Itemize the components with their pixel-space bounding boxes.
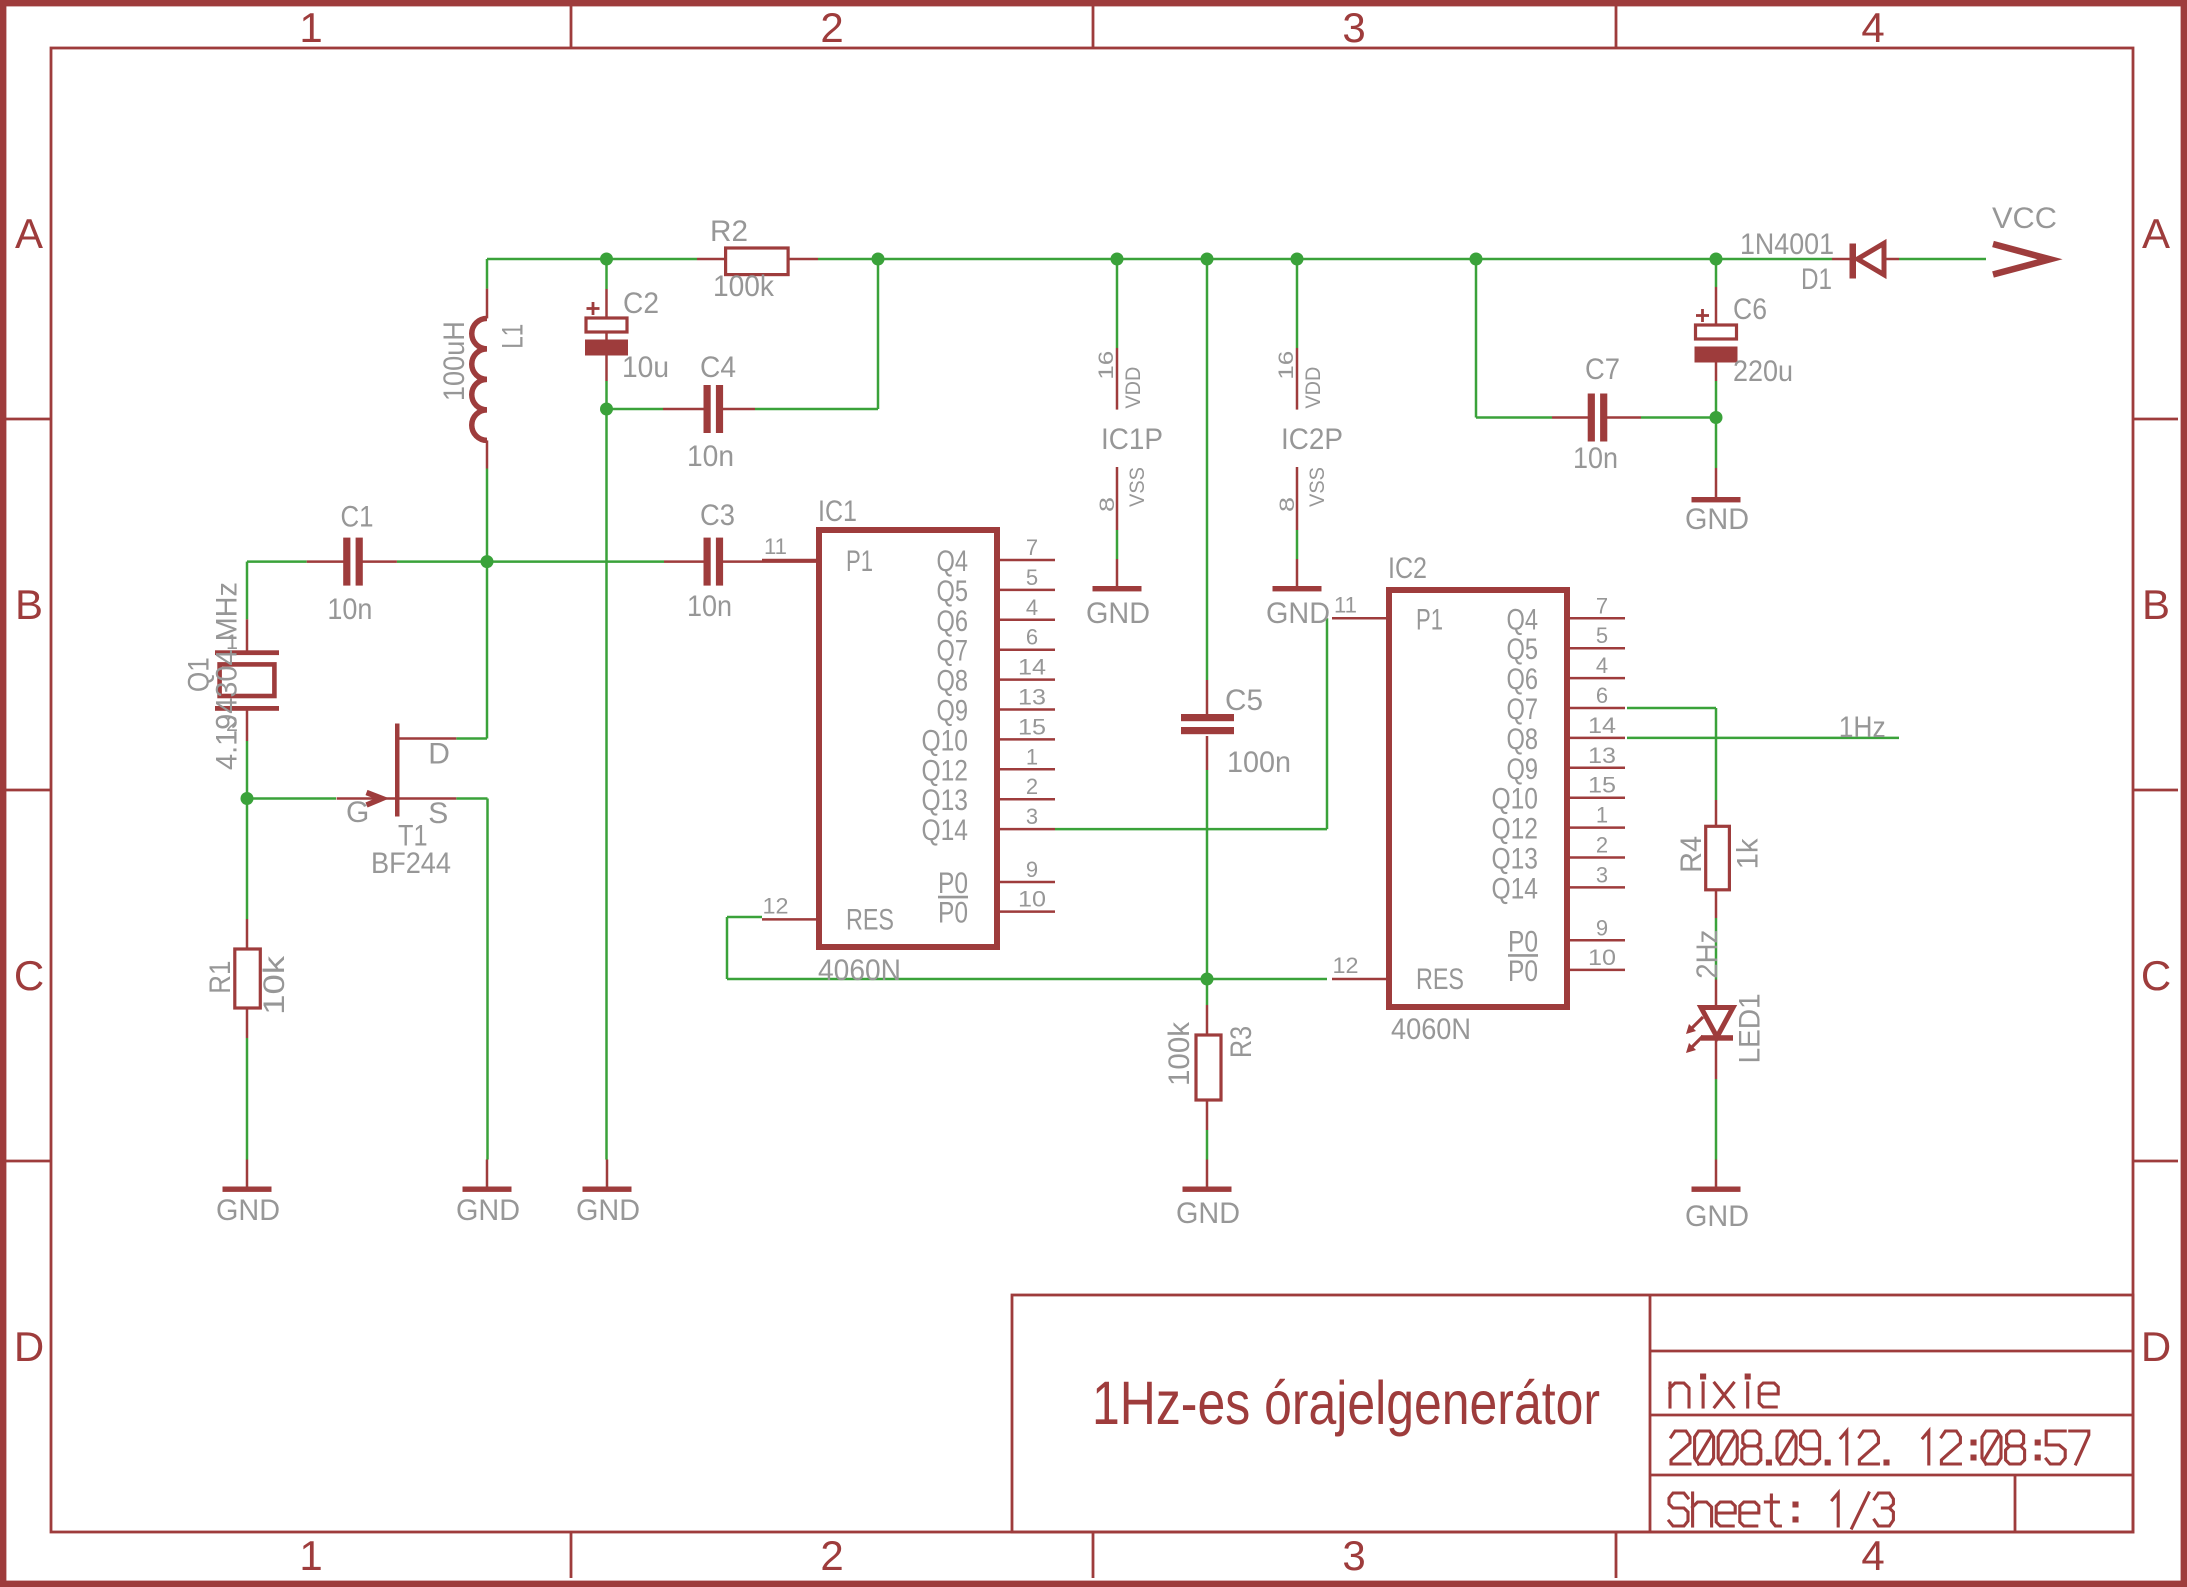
svg-text:A: A (15, 210, 43, 257)
svg-text:100k: 100k (1163, 1021, 1196, 1086)
svg-text:1: 1 (1026, 744, 1038, 769)
svg-text:G: G (346, 796, 369, 829)
svg-text:P1: P1 (846, 545, 873, 578)
svg-text:C: C (2141, 952, 2171, 999)
svg-text:VDD: VDD (1121, 367, 1145, 409)
svg-text:Q10: Q10 (922, 724, 969, 757)
svg-text:10n: 10n (1573, 442, 1618, 475)
svg-text:C7: C7 (1585, 353, 1620, 386)
svg-text:6: 6 (1596, 683, 1608, 708)
svg-text:Q5: Q5 (937, 575, 969, 608)
svg-text:P0: P0 (1508, 925, 1538, 958)
svg-text:R4: R4 (1675, 836, 1708, 873)
svg-text:13: 13 (1018, 685, 1046, 710)
svg-text:GND: GND (1176, 1197, 1240, 1230)
svg-text:8: 8 (1275, 497, 1299, 512)
svg-text:4: 4 (1861, 4, 1884, 51)
svg-text:100k: 100k (713, 270, 775, 303)
svg-text:C1: C1 (341, 500, 374, 533)
svg-text:Q4: Q4 (937, 545, 969, 578)
svg-text:12: 12 (1333, 953, 1359, 978)
svg-text:3: 3 (1342, 4, 1365, 51)
svg-text:2: 2 (820, 1532, 843, 1579)
svg-text:C6: C6 (1733, 293, 1767, 326)
svg-text:VDD: VDD (1301, 367, 1325, 409)
svg-text:16: 16 (1094, 351, 1118, 380)
svg-text:Q4: Q4 (1507, 603, 1539, 636)
svg-text:B: B (15, 581, 43, 628)
svg-text:3: 3 (1342, 1532, 1365, 1579)
svg-text:RES: RES (1416, 963, 1464, 996)
svg-text:P1: P1 (1416, 603, 1443, 636)
svg-text:15: 15 (1018, 714, 1046, 739)
svg-text:Q8: Q8 (937, 665, 969, 698)
svg-text:9: 9 (1596, 915, 1608, 940)
svg-text:11: 11 (1334, 592, 1357, 617)
svg-text:Q12: Q12 (922, 754, 969, 787)
svg-text:Q13: Q13 (1492, 843, 1539, 876)
svg-text:3: 3 (1596, 862, 1608, 887)
svg-text:Q9: Q9 (937, 695, 969, 728)
svg-text:10n: 10n (687, 440, 734, 473)
svg-text:100uH: 100uH (438, 321, 471, 401)
svg-text:Q6: Q6 (1507, 663, 1539, 696)
svg-text:6: 6 (1026, 625, 1038, 650)
svg-text:10n: 10n (327, 593, 372, 626)
svg-text:12: 12 (763, 893, 789, 918)
svg-text:VCC: VCC (1992, 202, 2057, 235)
svg-text:8: 8 (1095, 497, 1119, 512)
svg-text:C3: C3 (700, 499, 735, 532)
svg-text:4: 4 (1596, 653, 1608, 678)
svg-text:Q9: Q9 (1507, 753, 1539, 786)
svg-text:GND: GND (1086, 597, 1150, 630)
svg-text:R3: R3 (1225, 1026, 1258, 1058)
svg-text:BF244: BF244 (371, 847, 451, 880)
svg-text:R2: R2 (710, 215, 748, 248)
svg-text:GND: GND (1685, 503, 1749, 536)
svg-text:4.194304 MHz: 4.194304 MHz (211, 582, 244, 770)
svg-text:2: 2 (1026, 774, 1038, 799)
svg-text:4: 4 (1026, 595, 1038, 620)
svg-text:2: 2 (820, 4, 843, 51)
svg-text:C5: C5 (1225, 684, 1263, 717)
svg-text:GND: GND (456, 1194, 520, 1227)
svg-text:D: D (2141, 1323, 2171, 1370)
svg-text:GND: GND (216, 1194, 280, 1227)
svg-text:13: 13 (1588, 743, 1616, 768)
svg-text:A: A (2142, 210, 2170, 257)
svg-text:S: S (428, 797, 448, 830)
svg-text:B: B (2142, 581, 2170, 628)
svg-text:1: 1 (299, 1532, 322, 1579)
svg-text:C4: C4 (700, 351, 736, 384)
svg-text:7: 7 (1596, 593, 1608, 618)
svg-text:4060N: 4060N (1391, 1013, 1471, 1046)
svg-text:Q6: Q6 (937, 605, 969, 638)
svg-text:10k: 10k (258, 955, 291, 1015)
svg-text:C: C (14, 952, 44, 999)
svg-text:3: 3 (1026, 804, 1038, 829)
svg-text:10: 10 (1588, 945, 1616, 970)
svg-text:14: 14 (1588, 713, 1616, 738)
svg-text:Q14: Q14 (922, 814, 969, 847)
svg-text:VSS: VSS (1125, 467, 1149, 507)
svg-text:11: 11 (764, 534, 787, 559)
svg-text:1: 1 (299, 4, 322, 51)
svg-text:RES: RES (846, 903, 894, 936)
svg-text:R1: R1 (204, 961, 237, 994)
svg-text:GND: GND (576, 1194, 640, 1227)
svg-text:1N4001: 1N4001 (1740, 228, 1834, 261)
svg-text:IC2P: IC2P (1281, 423, 1343, 456)
svg-text:1k: 1k (1732, 837, 1765, 869)
svg-text:LED1: LED1 (1733, 993, 1766, 1063)
svg-text:L1: L1 (497, 324, 530, 349)
svg-text:220u: 220u (1733, 355, 1793, 388)
svg-text:10u: 10u (622, 351, 669, 384)
svg-text:C2: C2 (623, 287, 659, 320)
svg-text:16: 16 (1274, 351, 1298, 380)
svg-text:10n: 10n (687, 590, 732, 623)
svg-text:Q13: Q13 (922, 784, 969, 817)
svg-text:15: 15 (1588, 773, 1616, 798)
svg-text:P0: P0 (938, 867, 968, 900)
svg-text:GND: GND (1685, 1200, 1749, 1233)
svg-text:Q12: Q12 (1492, 813, 1539, 846)
svg-text:GND: GND (1266, 597, 1330, 630)
svg-text:1Hz: 1Hz (1839, 711, 1886, 744)
svg-text:Q10: Q10 (1492, 783, 1539, 816)
svg-text:9: 9 (1026, 857, 1038, 882)
svg-text:Q7: Q7 (1507, 693, 1539, 726)
svg-text:1: 1 (1596, 803, 1608, 828)
svg-text:2Hz: 2Hz (1691, 930, 1724, 979)
svg-text:4060N: 4060N (818, 954, 901, 987)
svg-text:Q14: Q14 (1492, 872, 1539, 905)
svg-text:4: 4 (1861, 1532, 1884, 1579)
svg-text:100n: 100n (1227, 746, 1291, 779)
svg-text:IC2: IC2 (1388, 552, 1427, 585)
svg-text:P0: P0 (938, 897, 968, 930)
svg-text:IC1: IC1 (818, 495, 857, 528)
svg-text:10: 10 (1018, 887, 1046, 912)
svg-text:P0: P0 (1508, 955, 1538, 988)
svg-text:14: 14 (1018, 655, 1046, 680)
svg-text:D: D (14, 1323, 44, 1370)
svg-text:2: 2 (1596, 833, 1608, 858)
svg-text:VSS: VSS (1305, 467, 1329, 507)
svg-text:5: 5 (1026, 565, 1038, 590)
svg-text:1Hz-es órajelgenerátor: 1Hz-es órajelgenerátor (1092, 1369, 1600, 1437)
svg-text:Q7: Q7 (937, 635, 969, 668)
svg-text:IC1P: IC1P (1101, 423, 1163, 456)
svg-text:Q8: Q8 (1507, 723, 1539, 756)
svg-text:Q5: Q5 (1507, 633, 1539, 666)
svg-text:5: 5 (1596, 623, 1608, 648)
svg-text:D: D (428, 738, 450, 771)
svg-text:D1: D1 (1801, 263, 1832, 296)
svg-text:7: 7 (1026, 535, 1038, 560)
